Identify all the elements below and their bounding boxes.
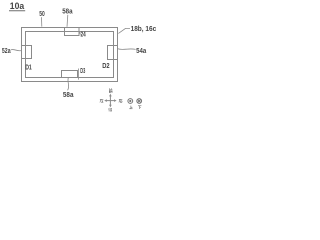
svg-text:50: 50 bbox=[39, 11, 45, 18]
svg-text:D2: D2 bbox=[102, 63, 109, 70]
svg-text:58a: 58a bbox=[62, 9, 72, 16]
svg-text:D3: D3 bbox=[80, 68, 85, 75]
svg-text:24: 24 bbox=[81, 32, 86, 39]
svg-text:10a: 10a bbox=[10, 1, 25, 11]
svg-text:58a: 58a bbox=[63, 92, 74, 99]
svg-text:52a: 52a bbox=[2, 48, 11, 55]
svg-text:18b, 16c: 18b, 16c bbox=[131, 26, 157, 33]
svg-text:54a: 54a bbox=[136, 48, 146, 55]
svg-text:D1: D1 bbox=[25, 65, 32, 72]
